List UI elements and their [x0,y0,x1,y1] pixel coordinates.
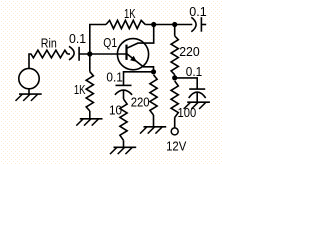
wire R3 to dot3 [174,75,176,78]
svg-text:10: 10 [109,104,122,118]
svg-text:1K: 1K [74,83,86,97]
Q1 emitter arrow [130,56,137,62]
wire R5 to 12V terminal [174,118,176,128]
node 220 rail junction dot [172,22,177,27]
transistor Q1 [117,39,148,70]
ground under R4 [140,127,166,134]
node supply filter junction dot [172,75,177,80]
wire Rin to C1 [67,53,70,55]
wire dot2 to R3 [174,25,176,36]
wire Q1 collector to dot1 [127,25,154,49]
resistor R3 220 collector load [171,36,178,75]
svg-text:12V: 12V [166,140,187,154]
wire base node up to feedback rail [90,25,106,55]
ground under C4 [184,102,210,109]
svg-text:0.1: 0.1 [189,5,206,19]
svg-text:100: 100 [178,106,197,120]
ground under R1 [76,119,102,126]
wire Q1 emitter [127,54,154,72]
node emitter junction dot [151,69,156,74]
svg-text:Rin: Rin [41,37,57,51]
terminal 12V [171,128,178,135]
capacitor C2 (output 0.1) [191,17,206,32]
wire emitter to C3 [124,72,154,86]
svg-text:0.1: 0.1 [69,32,86,46]
resistor Rin [31,50,67,58]
signal source V1 [19,68,39,88]
ground under source [16,94,42,101]
node base junction dot [87,51,92,56]
wire R1 to ground [89,111,91,119]
wire source bottom lead [28,89,30,94]
svg-text:Q1: Q1 [103,36,117,50]
wire R10 to ground [123,140,125,147]
svg-text:220: 220 [131,96,150,110]
resistor R1 1K base [86,72,93,111]
resistor R5 100 [171,81,178,118]
wire R4 to ground [153,115,155,127]
wire source top lead [29,54,32,68]
ground under R10 [110,147,136,154]
svg-text:0.1: 0.1 [106,70,122,84]
wire C4 to ground [196,93,198,103]
wire dot3 to C4 [175,78,198,89]
wire base node down [89,56,91,72]
resistor R4 220 emitter [150,75,157,115]
capacitor C3 (emitter 0.1) [115,85,132,94]
resistor R value 10 [120,99,127,140]
wire top rail to C2 [145,24,192,26]
capacitor C1 (input 0.1) [69,46,79,61]
wire C3 to R 10 [123,90,125,99]
svg-text:220: 220 [179,45,200,59]
node collector rail junction dot [151,22,156,27]
capacitor C4 (bypass 0.1) [189,89,206,98]
svg-text:0.1: 0.1 [186,65,202,79]
resistor R2 1K feedback [106,20,145,28]
svg-text:1K: 1K [124,7,136,21]
wire C1 to Q1 base [79,53,126,55]
